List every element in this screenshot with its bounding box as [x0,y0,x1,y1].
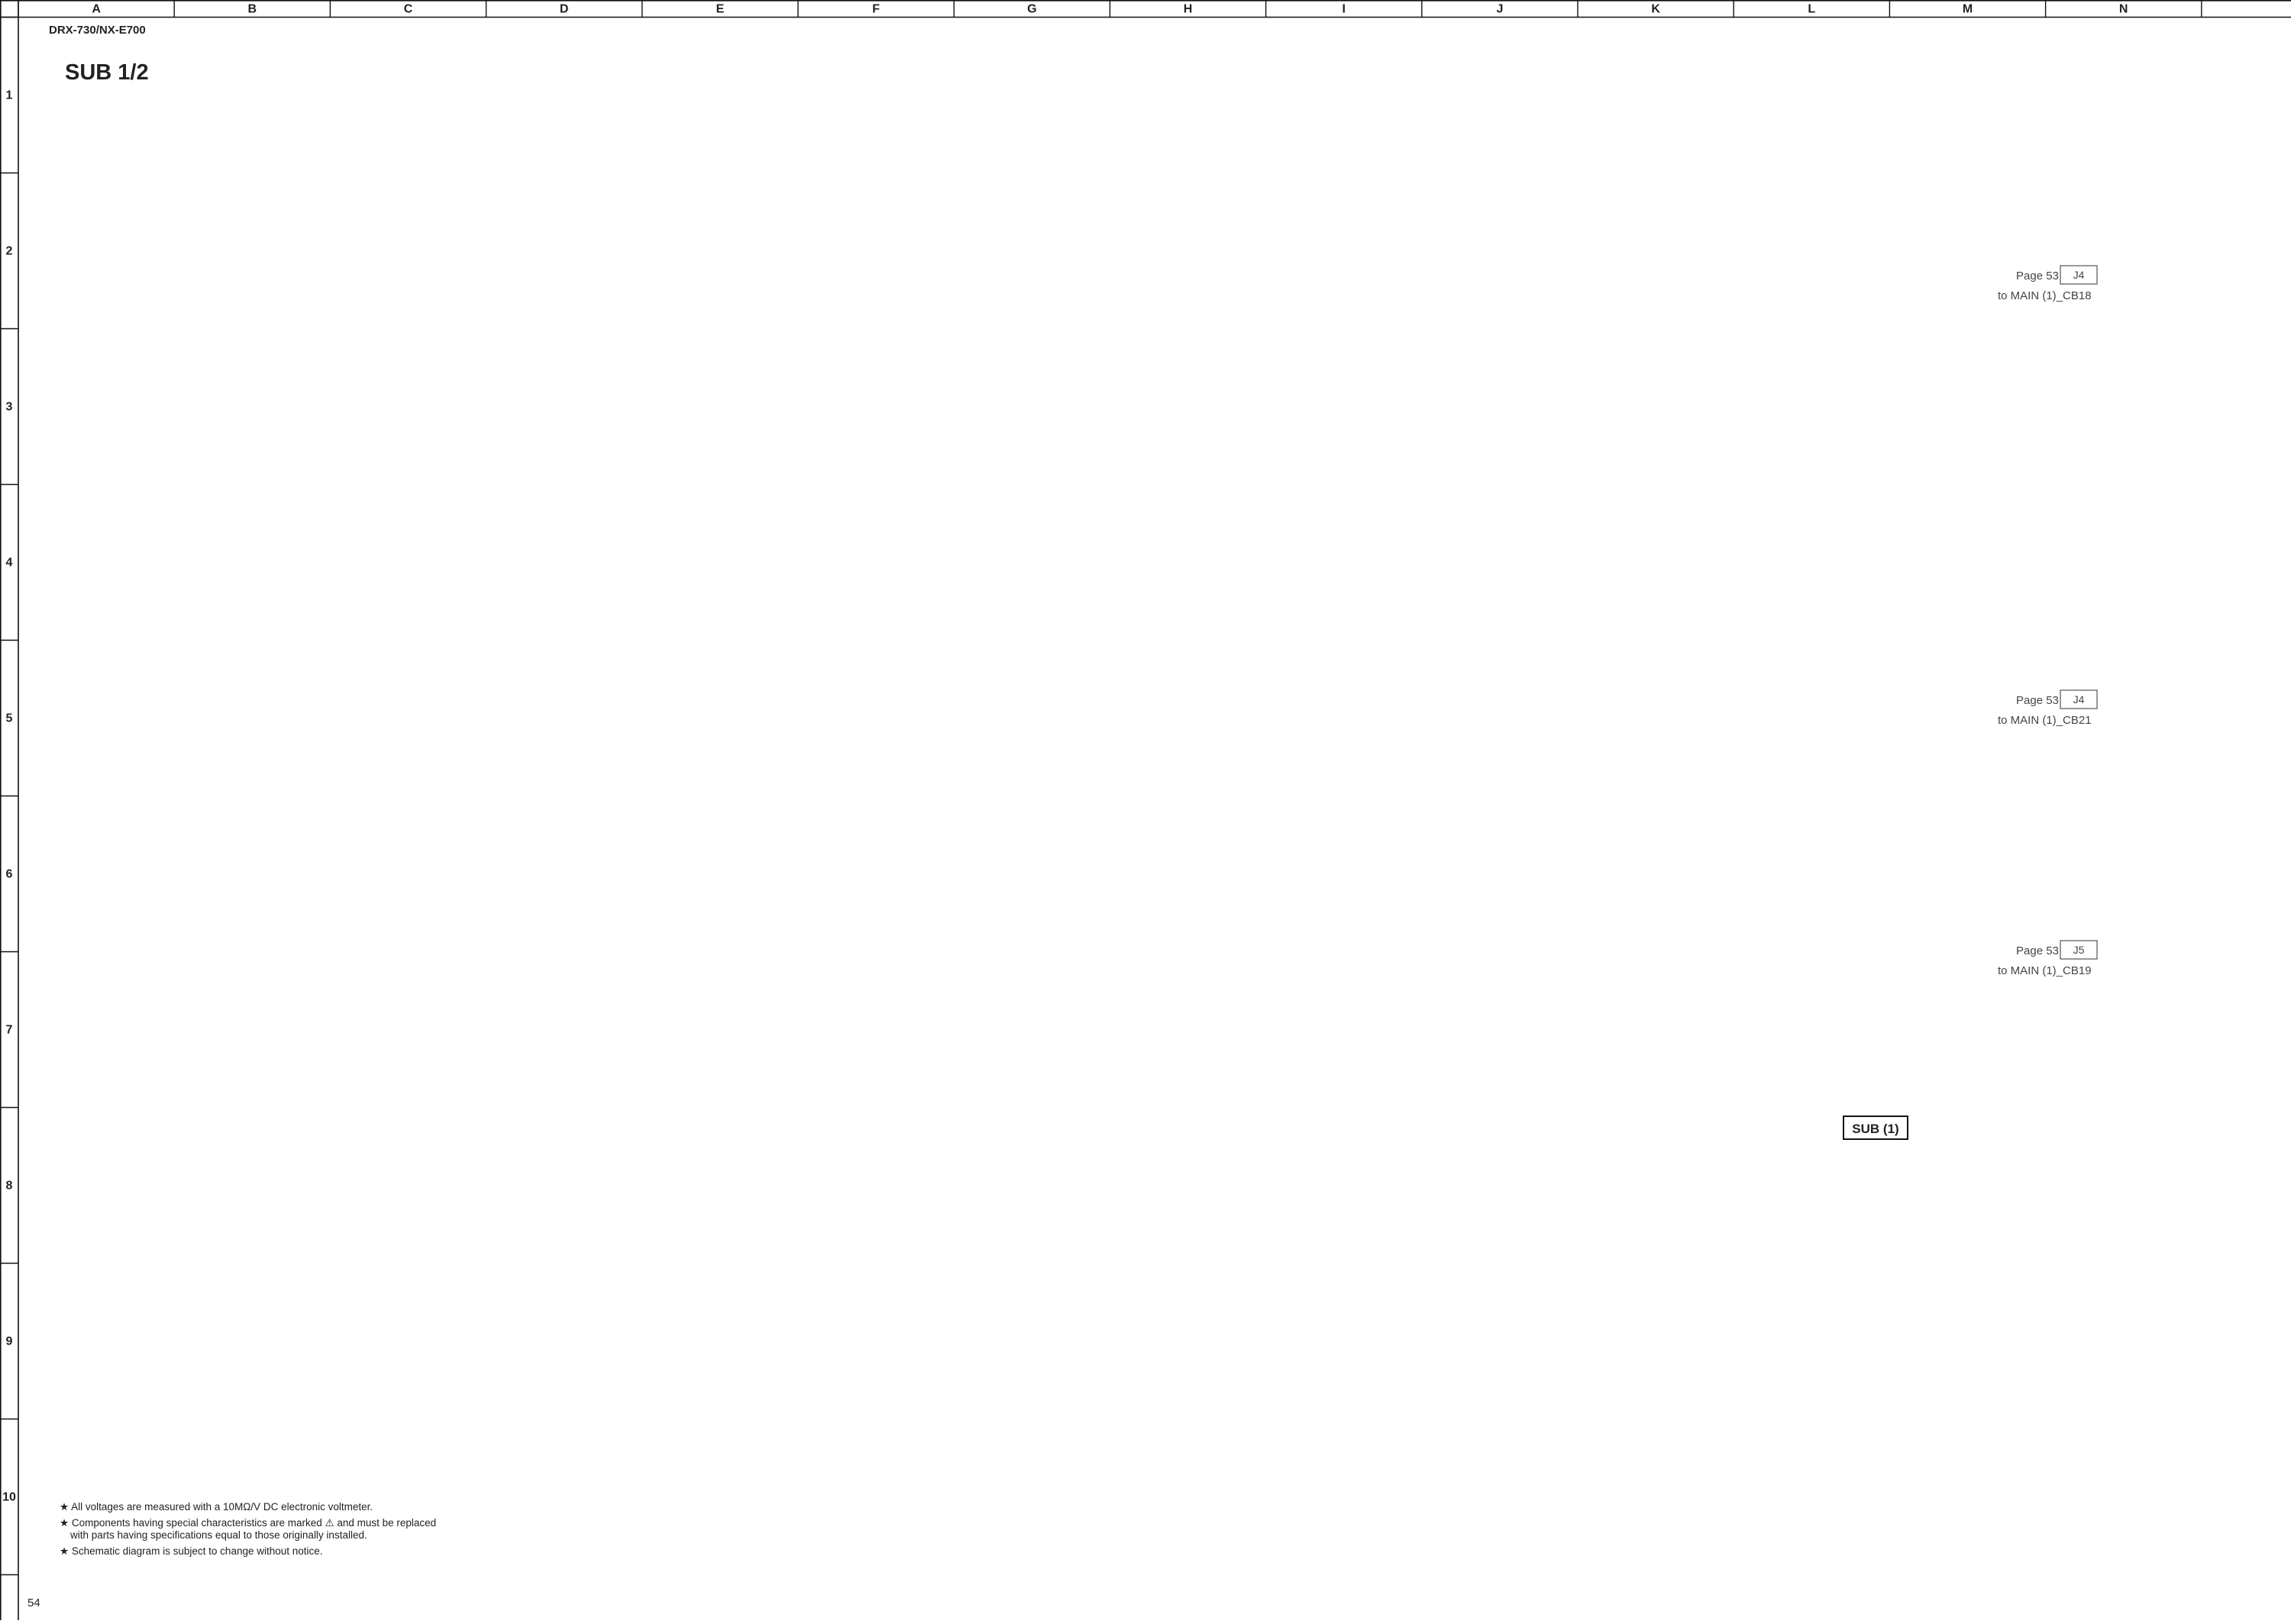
svg-text:to MAIN (1)_CB19: to MAIN (1)_CB19 [1998,964,2092,977]
ref Page 53 J4 to MAIN(1)_CB18 [1998,266,2097,302]
footnotes [60,1501,436,1557]
svg-text:1: 1 [6,89,13,102]
svg-text:Page 53: Page 53 [2016,944,2059,957]
svg-text:K: K [1651,3,1660,16]
svg-text:10: 10 [2,1491,16,1504]
svg-text:to MAIN (1)_CB21: to MAIN (1)_CB21 [1998,714,2092,727]
svg-text:H: H [1184,3,1193,16]
ref Page 53 J5 to MAIN(1)_CB19 [1998,941,2097,977]
SUB (1) label [1843,1116,1908,1139]
svg-text:with parts having specificatio: with parts having specifications equal t… [69,1529,367,1541]
svg-text:★ Components having special ch: ★ Components having special characterist… [60,1517,436,1529]
svg-text:to MAIN (1)_CB18: to MAIN (1)_CB18 [1998,289,2092,302]
svg-text:I: I [1342,3,1345,16]
svg-text:D: D [560,3,569,16]
svg-text:SUB (1): SUB (1) [1852,1122,1898,1136]
svg-text:★ Schematic diagram is subject: ★ Schematic diagram is subject to change… [60,1545,323,1557]
svg-text:J4: J4 [2073,693,2085,705]
svg-text:54: 54 [27,1597,40,1609]
svg-text:4: 4 [6,557,13,570]
svg-text:★ All voltages are measured wi: ★ All voltages are measured with a 10MΩ/… [60,1501,373,1513]
svg-text:6: 6 [6,868,13,881]
svg-text:Page 53: Page 53 [2016,270,2059,283]
svg-text:J5: J5 [2073,944,2085,956]
svg-text:N: N [2119,3,2128,16]
svg-text:5: 5 [6,712,13,725]
svg-text:L: L [1808,3,1815,16]
svg-text:C: C [404,3,413,16]
svg-text:A: A [92,3,101,16]
svg-text:J: J [1496,3,1503,16]
svg-text:F: F [872,3,880,16]
svg-text:M: M [1963,3,1973,16]
svg-text:J4: J4 [2073,269,2085,281]
svg-text:G: G [1027,3,1036,16]
svg-text:8: 8 [6,1180,13,1193]
svg-text:2: 2 [6,245,13,258]
svg-text:DRX-730/NX-E700: DRX-730/NX-E700 [49,24,146,37]
svg-text:Page 53: Page 53 [2016,694,2059,707]
svg-text:9: 9 [6,1335,13,1348]
svg-text:7: 7 [6,1024,13,1037]
svg-text:E: E [716,3,725,16]
svg-text:SUB 1/2: SUB 1/2 [65,60,149,85]
svg-text:B: B [248,3,257,16]
svg-text:3: 3 [6,401,13,414]
ref Page 53 J4 to MAIN(1)_CB21 [1998,690,2097,727]
